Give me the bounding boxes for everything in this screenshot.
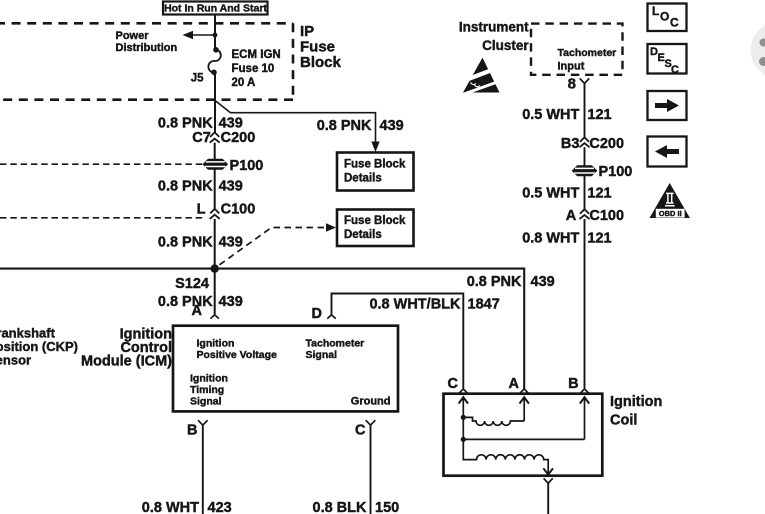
wire: power distribution arrow (left) — [183, 31, 216, 39]
svg-text:439: 439 — [219, 235, 243, 251]
pin B of ICM (fork) — [187, 420, 208, 438]
dashed line to C100 (left) — [0, 217, 206, 219]
svg-text:Cluster: Cluster — [482, 38, 529, 53]
svg-text:0.8 WHT/BLK: 0.8 WHT/BLK — [369, 297, 461, 313]
svg-text:Instrument: Instrument — [459, 19, 529, 34]
svg-text:IP: IP — [300, 23, 314, 40]
svg-text:B3: B3 — [561, 136, 580, 152]
Ignition Coil box — [444, 394, 603, 476]
svg-text:Ignition: Ignition — [610, 394, 662, 410]
IP Fuse Block label — [300, 23, 342, 71]
label 0.5 WHT 121 (#2) — [522, 186, 611, 202]
label 0.8 WHT/BLK 1847 — [369, 297, 499, 313]
wire: tachometer signal down to coil pin B — [584, 83, 586, 389]
pin A of ICM — [192, 303, 219, 319]
svg-text:C100: C100 — [221, 201, 256, 217]
svg-text:A: A — [566, 208, 577, 224]
svg-text:0.8 PNK: 0.8 PNK — [158, 235, 213, 251]
svg-text:Sensor: Sensor — [0, 353, 31, 368]
svg-text:OBD II: OBD II — [659, 209, 682, 218]
svg-text:Input: Input — [558, 61, 585, 73]
Fuse Block Details box 1 — [337, 153, 414, 191]
connector A / C100 (right) — [566, 208, 624, 224]
fuse ECM IGN Fuse 10 20 A — [208, 47, 220, 75]
connector P100 (left) — [203, 158, 263, 174]
wire: dot2 to pin B riser — [463, 438, 584, 440]
svg-text:0.8 PNK: 0.8 PNK — [317, 118, 372, 134]
svg-text:0.8 PNK: 0.8 PNK — [158, 115, 213, 131]
label 0.8 PNK 439 (#2) — [158, 179, 243, 195]
svg-text:1847: 1847 — [468, 297, 500, 313]
svg-text:Tachometer: Tachometer — [558, 47, 617, 59]
pin C of ICM (fork) — [355, 420, 375, 438]
svg-text:0.8 PNK: 0.8 PNK — [467, 274, 522, 290]
svg-text:B: B — [187, 423, 197, 439]
svg-text:P100: P100 — [230, 158, 264, 174]
coil pin B — [568, 376, 589, 393]
svg-text:121: 121 — [587, 186, 611, 202]
wire: long horizontal through S124 to coil pin A drop — [0, 269, 524, 389]
label 0.8 WHT 121 — [522, 231, 611, 247]
svg-text:150: 150 — [375, 500, 399, 514]
svg-text:0.8 PNK: 0.8 PNK — [158, 179, 213, 195]
svg-text:0.8 PNK: 0.8 PNK — [158, 294, 213, 310]
svg-text:423: 423 — [208, 500, 232, 514]
icon button DESC — [648, 44, 687, 76]
svg-text:C: C — [448, 376, 459, 392]
label 0.8 BLK 150 — [313, 500, 400, 514]
node: coil junction dot 2 — [461, 437, 466, 442]
svg-text:0.8 WHT: 0.8 WHT — [142, 500, 199, 514]
svg-text:O: O — [660, 10, 669, 24]
label Ignition Coil — [610, 394, 662, 429]
svg-text:439: 439 — [219, 179, 243, 195]
svg-text:S124: S124 — [175, 276, 209, 292]
svg-text:Details: Details — [344, 229, 382, 241]
node: junction at power distribution tap — [213, 33, 218, 38]
IP Fuse Block dashed box — [0, 23, 293, 99]
svg-text:A: A — [509, 376, 520, 392]
ICM pin label: Ignition Positive Voltage — [197, 338, 277, 361]
label Ignition Control Module (ICM) — [81, 327, 172, 370]
label 0.8 WHT 423 — [142, 500, 232, 514]
coil output fork below box — [544, 478, 553, 483]
svg-text:D: D — [312, 306, 322, 322]
ICM pin label: Tachometer Signal — [306, 338, 365, 361]
svg-text:C: C — [671, 64, 679, 76]
wire: coil output down — [547, 483, 549, 514]
dashed arrow from S124 to fuse block details 2 — [220, 223, 337, 264]
svg-text:C200: C200 — [589, 136, 624, 152]
label box: Hot In Run And Start — [163, 2, 268, 15]
svg-text:L: L — [652, 4, 659, 18]
svg-text:Fuse: Fuse — [300, 39, 335, 56]
svg-text:Coil: Coil — [610, 413, 637, 429]
floating grey button (cut off at right edge) — [751, 22, 765, 79]
node S124 — [211, 264, 219, 272]
svg-text:Fuse 10: Fuse 10 — [232, 63, 275, 75]
coil pin A — [509, 376, 529, 393]
svg-text:439: 439 — [219, 115, 243, 131]
svg-text:Block: Block — [300, 54, 342, 71]
svg-text:Ground: Ground — [351, 396, 391, 408]
wire: ICM pin B down — [202, 425, 204, 514]
svg-text:8: 8 — [568, 76, 576, 93]
svg-text:Distribution: Distribution — [116, 42, 178, 54]
svg-text:121: 121 — [587, 231, 611, 247]
svg-text:0.5 WHT: 0.5 WHT — [522, 186, 579, 202]
svg-text:Fuse Block: Fuse Block — [344, 215, 406, 227]
svg-text:L: L — [197, 201, 206, 217]
svg-text:Fuse Block: Fuse Block — [344, 159, 406, 171]
svg-text:C200: C200 — [221, 130, 256, 146]
svg-text:Signal: Signal — [190, 396, 222, 408]
connector L / C100 — [197, 201, 256, 219]
svg-text:B: B — [568, 376, 578, 392]
svg-text:0.5 WHT: 0.5 WHT — [522, 107, 579, 123]
svg-text:Hot In Run And Start: Hot In Run And Start — [164, 3, 267, 15]
ESD warning triangle symbol — [461, 58, 502, 94]
svg-text:121: 121 — [587, 107, 611, 123]
icon button left arrow — [648, 137, 687, 167]
svg-text:C100: C100 — [589, 208, 624, 224]
coil internal arrow at pin A — [520, 397, 529, 421]
icon button LOC — [648, 4, 687, 32]
node: coil junction dot 1 — [461, 415, 466, 420]
svg-text:C: C — [670, 16, 679, 30]
primary winding (4 loops) — [463, 417, 524, 425]
wire: ICM pin C down — [370, 425, 372, 514]
svg-text:Positive Voltage: Positive Voltage — [197, 349, 277, 361]
svg-text:0.8 BLK: 0.8 BLK — [313, 500, 368, 514]
svg-text:439: 439 — [531, 274, 555, 290]
connector B3 / C200 — [561, 136, 624, 152]
label 0.8 PNK 439 (#1) — [158, 115, 243, 131]
label Crankshaft Position (CKP) Sensor (cut off at left) — [0, 326, 78, 368]
label 0.8 PNK 439 (coil A branch) — [467, 274, 555, 290]
connector C7 / C200 — [192, 130, 255, 146]
coil pin C — [448, 376, 468, 393]
svg-text:Signal: Signal — [306, 349, 338, 361]
secondary winding (7 loops) — [463, 439, 548, 474]
label ECM IGN Fuse 10 20 A — [232, 49, 281, 89]
wire: fuse output down to ICM pin A — [214, 73, 216, 315]
Fuse Block Details box 2 — [337, 210, 414, 247]
label Tachometer Input — [558, 47, 617, 73]
Tachometer Input dashed box — [531, 24, 623, 75]
svg-text:Power: Power — [116, 30, 150, 42]
icon OBD II triangle — [650, 183, 690, 218]
svg-text:Details: Details — [344, 173, 382, 185]
wire: branch to fuse block details (diagonal + horizontal + drop) — [215, 101, 380, 153]
svg-text:C: C — [355, 423, 366, 439]
svg-text:P100: P100 — [599, 164, 633, 180]
svg-text:439: 439 — [219, 294, 243, 310]
svg-text:20 A: 20 A — [232, 77, 256, 89]
svg-text:Ignition: Ignition — [190, 373, 228, 385]
wire: D pin up and right to coil pin C — [332, 294, 464, 389]
svg-text:Timing: Timing — [190, 384, 224, 396]
svg-text:ECM IGN: ECM IGN — [232, 49, 281, 61]
svg-text:0.8 WHT: 0.8 WHT — [522, 231, 579, 247]
label 0.8 PNK 439 (#4) — [158, 294, 243, 310]
dashed line to P100 (left) — [0, 163, 204, 165]
coil internal arrow at pin B — [580, 397, 589, 439]
icon button right arrow — [648, 91, 687, 120]
connector P100 (right) — [572, 164, 632, 180]
label Instrument Cluster — [459, 19, 530, 53]
label 0.5 WHT 121 (#1) — [522, 107, 611, 123]
svg-text:439: 439 — [380, 118, 404, 134]
ICM box — [173, 326, 398, 412]
label 0.8 PNK 439 (right branch) — [317, 118, 404, 134]
pin 8 of instrument cluster (fork) — [568, 76, 590, 93]
wire: from Hot In Run And Start down into fuse block — [214, 15, 216, 49]
svg-text:C7: C7 — [192, 130, 211, 146]
svg-text:A: A — [192, 303, 203, 319]
svg-text:Module (ICM): Module (ICM) — [81, 354, 172, 370]
coil internal arrow at pin C — [459, 397, 468, 439]
Power Distribution label — [116, 30, 178, 54]
arrow down to coil output — [543, 468, 553, 474]
svg-text:J5: J5 — [191, 73, 204, 85]
ICM pin label: Ignition Timing Signal — [190, 373, 228, 408]
label 0.8 PNK 439 (#3) — [158, 235, 243, 251]
pin D of ICM — [312, 306, 336, 322]
